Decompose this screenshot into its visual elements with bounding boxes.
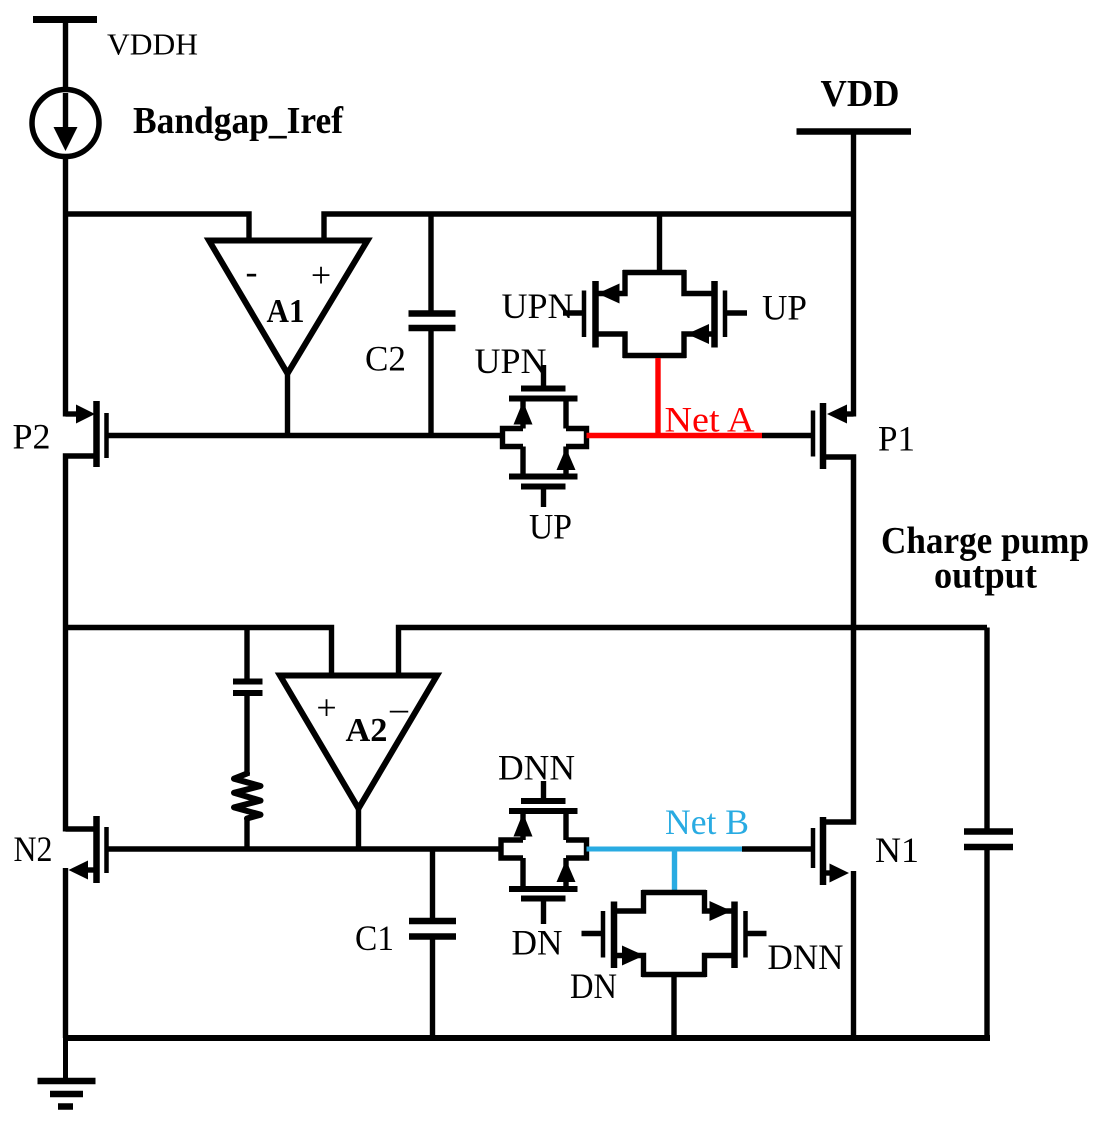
- svg-text:VDD: VDD: [821, 73, 900, 115]
- RC filter middle wire: [244, 693, 249, 776]
- transmission gate lower: bottom stub to ground rail: [671, 975, 676, 1039]
- transmission gate lower: right loop corner with arrow: [705, 890, 733, 921]
- transmission gate lower: left loop corner: [616, 890, 644, 911]
- RC filter capacitor plates: [233, 682, 263, 694]
- svg-text:N1: N1: [875, 830, 919, 870]
- op-amp A1: [209, 241, 368, 374]
- wire ground rail: [64, 1035, 990, 1041]
- pass gate upper: right bracket: [566, 429, 587, 447]
- svg-text:P2: P2: [13, 417, 51, 457]
- ground symbol: [38, 1038, 96, 1107]
- current source arrow: [54, 93, 78, 151]
- capacitor C2 bottom wire: [428, 328, 433, 436]
- transistor N1 gate bar: [811, 828, 816, 868]
- transmission gate lower: left channel bar: [611, 902, 618, 969]
- svg-text:-: -: [246, 252, 258, 292]
- svg-text:VDDH: VDDH: [107, 27, 198, 62]
- svg-text:DNN: DNN: [498, 748, 575, 788]
- pass gate upper: top channel bar: [509, 396, 578, 402]
- transmission gate upper: left gate lead: [563, 310, 584, 315]
- transmission gate upper: right loop corner: [684, 270, 712, 294]
- pass gate lower: top gate bar: [521, 798, 566, 804]
- transmission gate lower: right gate lead: [746, 931, 767, 936]
- wire net B to N1 gate: [742, 846, 813, 851]
- svg-text:DN: DN: [512, 923, 563, 963]
- transistor N2 channel bar: [93, 816, 100, 883]
- transmission gate lower: right channel bar: [731, 902, 738, 969]
- pass gate lower: top-right lead: [563, 811, 568, 840]
- transistor N1 source lead with arrow: [826, 864, 854, 1039]
- output capacitor plates: [964, 832, 1013, 848]
- wire net A to P1 gate: [762, 433, 813, 438]
- transistor P1 gate bar: [811, 411, 816, 457]
- transmission gate upper: right channel bar: [711, 281, 718, 348]
- pass gate lower: top channel bar: [509, 808, 578, 814]
- transmission gate upper: right gate lead: [725, 310, 747, 315]
- transmission gate upper: bottom-right lead with arrow: [684, 324, 712, 358]
- RC filter bottom wire: [244, 820, 249, 850]
- capacitor C1 top wire: [430, 849, 435, 921]
- pass gate lower: right bracket: [566, 840, 587, 858]
- transmission gate upper: left gate bar: [582, 291, 587, 338]
- transmission gate lower: top bar: [642, 890, 706, 896]
- svg-text:N2: N2: [14, 829, 53, 869]
- svg-text:output: output: [934, 555, 1037, 597]
- pass gate lower: left bracket: [501, 840, 523, 858]
- transmission gate lower: right gate bar: [743, 911, 748, 958]
- capacitor C2 top wire: [428, 214, 433, 314]
- transmission gate upper: left arrow: [598, 284, 620, 304]
- pass gate upper: top-right lead: [563, 399, 568, 429]
- pass gate lower: bottom-left lead: [520, 858, 525, 889]
- svg-text:C1: C1: [355, 918, 394, 958]
- pass gate lower: top-left lead with up arrow: [514, 811, 533, 840]
- pass gate lower: top gate stub: [541, 781, 546, 801]
- transmission gate lower: bottom bar: [642, 972, 706, 978]
- pass gate upper: bottom-left lead: [520, 447, 525, 477]
- net A red vertical wire: [655, 358, 660, 436]
- svg-text:Net A: Net A: [665, 400, 755, 440]
- wire gate row lower: [107, 846, 502, 851]
- pass gate upper: top-left lead with up arrow: [514, 399, 533, 429]
- pass gate upper: bottom gate stub: [541, 487, 546, 508]
- svg-text:Net B: Net B: [665, 802, 749, 842]
- transistor P1 drain lead: [826, 457, 854, 630]
- pass gate upper: bottom channel bar: [509, 474, 578, 480]
- transistor N2 drain lead: [66, 826, 95, 831]
- capacitor C1 bottom wire: [430, 937, 435, 1039]
- svg-text:UP: UP: [762, 288, 807, 328]
- pass gate upper: bottom-right lead with up arrow: [557, 447, 576, 477]
- wire lower rail left: [66, 628, 332, 679]
- transistor P2 drain lead: [66, 456, 95, 832]
- transistor N1 channel bar: [820, 817, 827, 885]
- svg-text:DN: DN: [570, 966, 617, 1006]
- transistor P2 source lead with arrow: [66, 405, 96, 424]
- transistor P1 source lead with arrow: [827, 405, 854, 424]
- transistor P2 channel bar: [93, 401, 100, 467]
- transmission gate upper: bottom-left lead: [598, 334, 625, 358]
- transistor N2 gate bar: [104, 827, 109, 873]
- svg-text:DNN: DNN: [768, 937, 844, 977]
- svg-text:UPN: UPN: [502, 286, 574, 326]
- pass gate upper: left bracket: [503, 429, 524, 447]
- transmission gate lower: left gate lead: [582, 931, 604, 936]
- transmission gate upper: left loop corner: [598, 270, 625, 294]
- transmission gate upper: stub from rail: [657, 214, 662, 273]
- wire VDDH to current source: [63, 20, 68, 93]
- transistor P1 channel bar: [820, 403, 827, 469]
- svg-text:P1: P1: [878, 419, 915, 459]
- op-amp A2: [280, 676, 437, 809]
- svg-text:C2: C2: [365, 339, 406, 379]
- pass gate lower: bottom gate bar: [521, 896, 566, 902]
- transmission gate lower: left gate bar: [601, 911, 606, 958]
- RC filter top wire: [244, 628, 249, 682]
- wire A1 plus input riser and top rail right: [324, 214, 854, 243]
- capacitor C2 plates: [409, 314, 456, 329]
- transmission gate upper: top bar: [623, 270, 686, 276]
- wire A2 minus riser and lower rail right: [399, 628, 988, 679]
- power VDD bar: [797, 128, 912, 135]
- svg-text:A1: A1: [267, 293, 305, 330]
- wire gate row upper: [107, 433, 503, 438]
- wire current source to P2 source: [63, 155, 68, 417]
- transmission gate upper: right gate bar: [723, 291, 728, 338]
- svg-text:–: –: [389, 688, 409, 728]
- current source Bandgap_Iref circle: [32, 90, 99, 157]
- capacitor C1 plates: [409, 921, 456, 937]
- svg-text:+: +: [311, 255, 331, 295]
- pass gate upper: top gate stub: [541, 365, 546, 389]
- transmission gate lower: bottom-left lead with arrow: [616, 946, 644, 978]
- wire top rail left: [66, 214, 250, 243]
- net B cyan horizontal wire: [587, 847, 743, 852]
- svg-text:A2: A2: [346, 712, 388, 749]
- transmission gate upper: left channel bar: [592, 281, 599, 348]
- net B cyan vertical wire: [672, 849, 677, 893]
- pass gate upper: bottom gate bar: [521, 484, 566, 490]
- op-amp A2 output wire: [356, 805, 361, 849]
- pass gate upper: top gate bar: [521, 386, 566, 392]
- transistor P2 gate bar: [104, 413, 109, 458]
- transmission gate upper: bottom bar: [623, 353, 686, 359]
- pass gate lower: bottom channel bar: [509, 886, 578, 892]
- wire VDD to P1 source: [851, 131, 856, 417]
- pass gate lower: bottom-right lead with up arrow: [557, 858, 576, 889]
- power VDDH bar: [33, 16, 97, 23]
- op-amp A1 output wire: [285, 370, 290, 436]
- transistor N1 drain lead and output line: [826, 627, 854, 822]
- transmission gate lower: bottom-right lead: [705, 956, 733, 978]
- svg-text:+: +: [316, 688, 336, 728]
- net A red horizontal wire: [587, 433, 763, 439]
- svg-text:Bandgap_Iref: Bandgap_Iref: [133, 100, 344, 142]
- svg-text:UP: UP: [529, 507, 572, 547]
- svg-text:UPN: UPN: [475, 341, 547, 381]
- output capacitor bottom wire: [984, 847, 989, 1038]
- output capacitor top wire: [984, 628, 989, 832]
- resistor R1 zigzag: [234, 774, 261, 819]
- pass gate lower: bottom gate stub: [541, 899, 546, 925]
- transistor N2 source lead with arrow: [66, 861, 95, 1039]
